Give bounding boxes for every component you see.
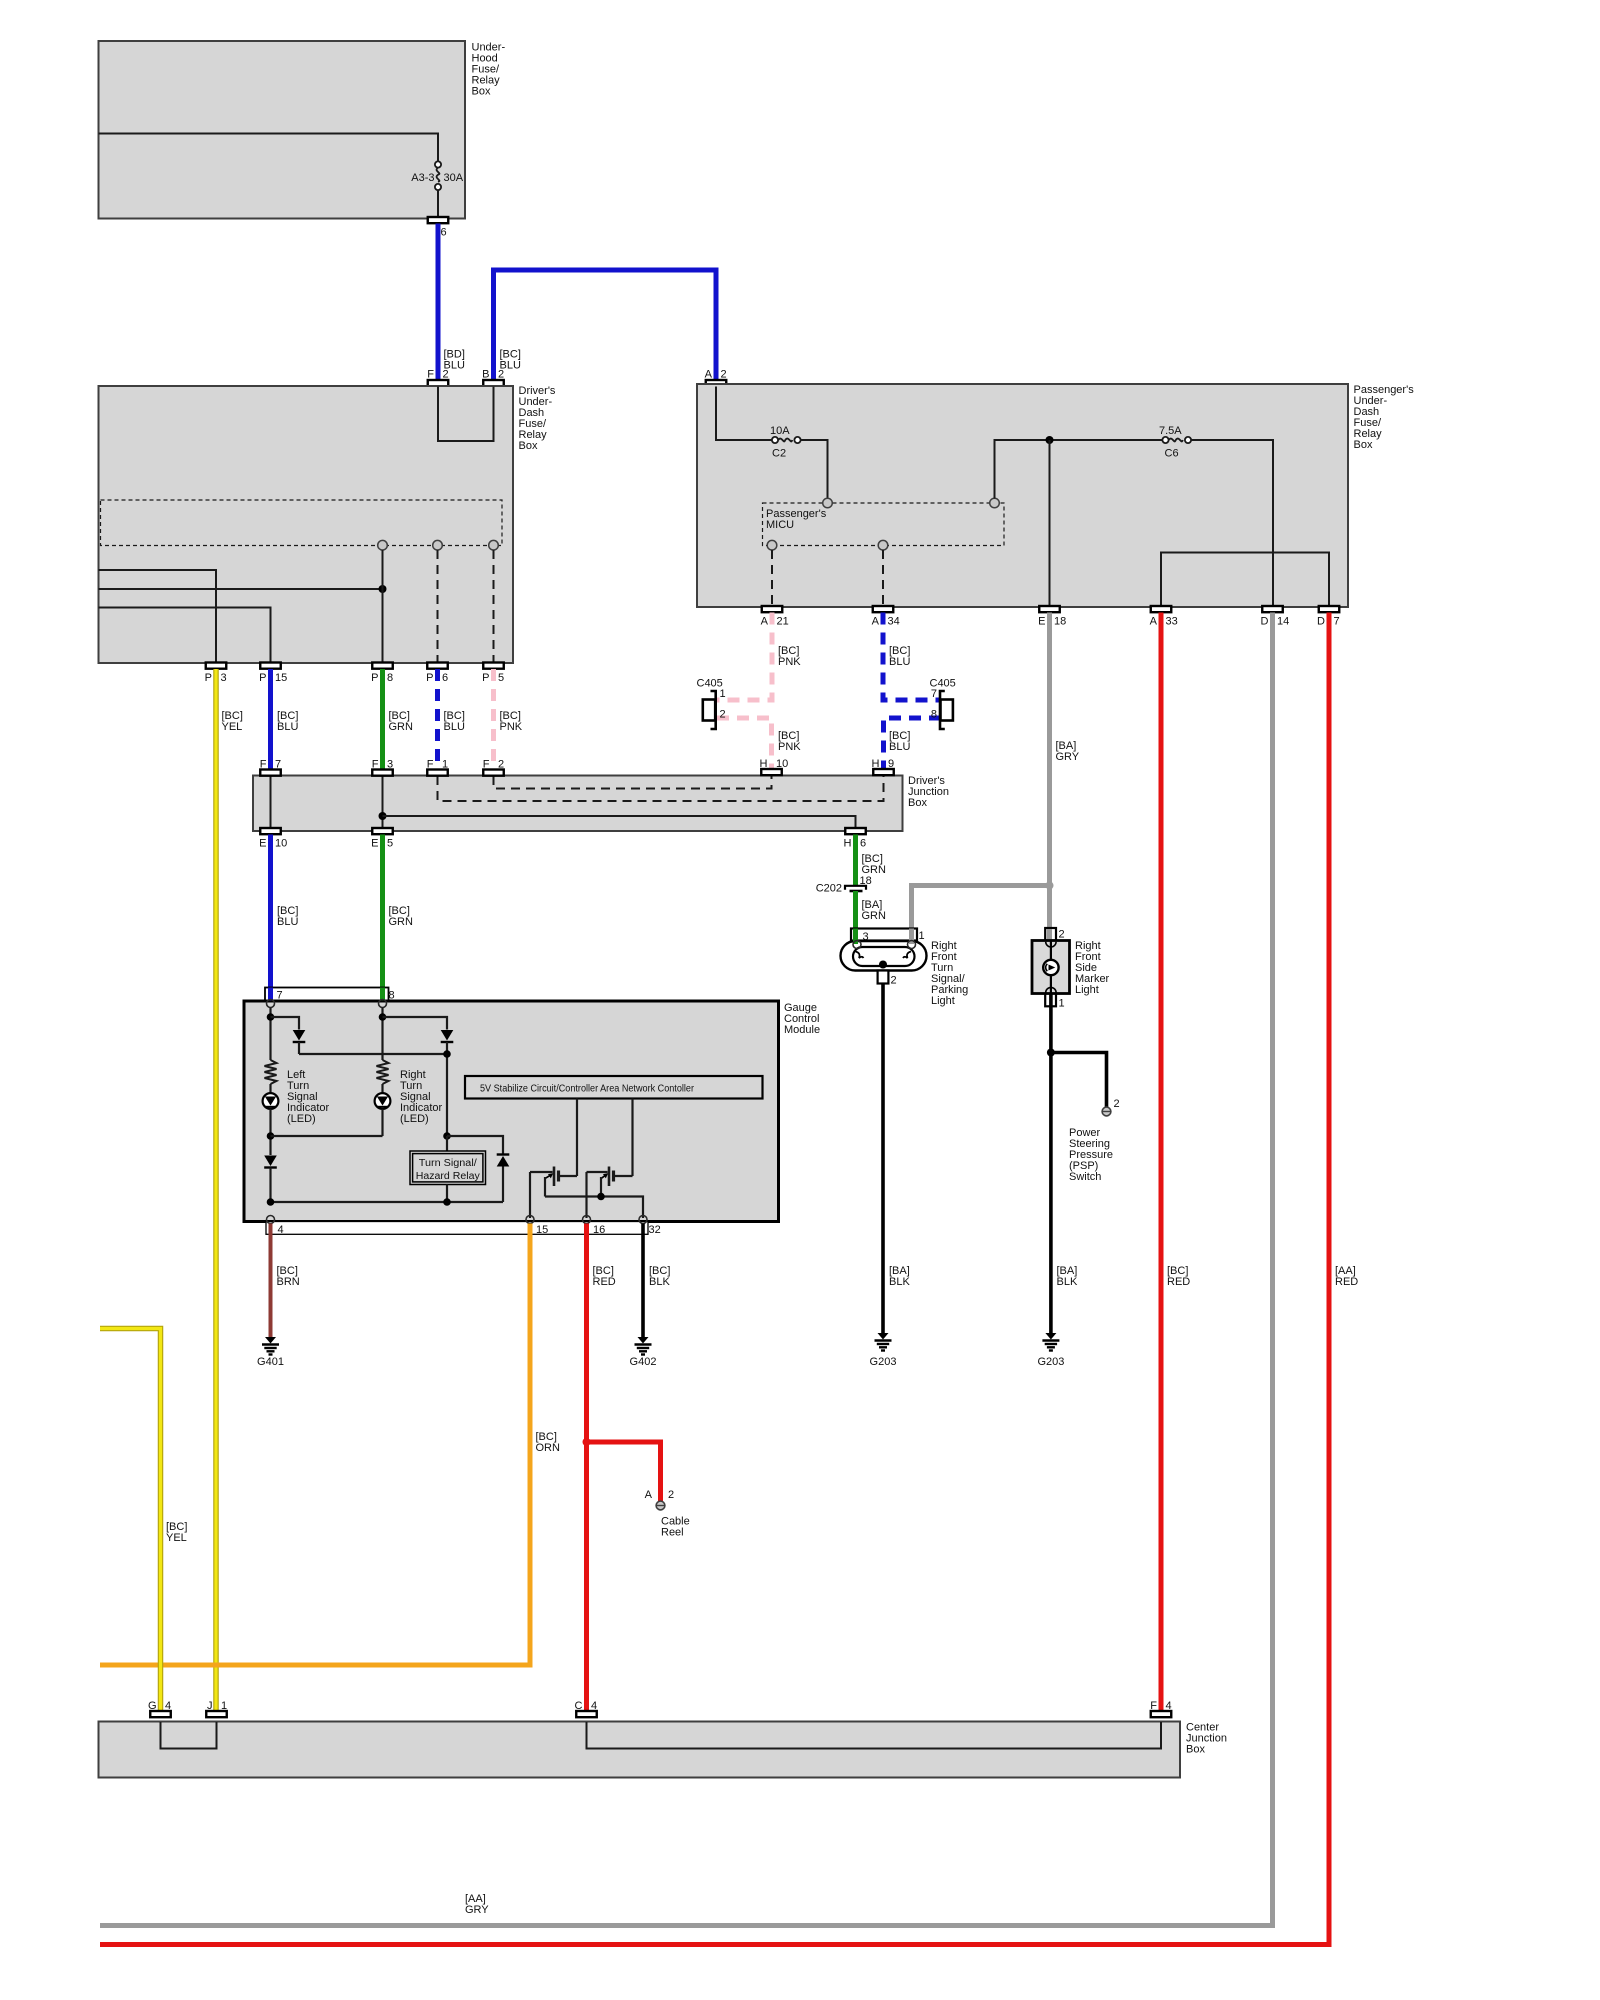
wire pin8 down: [381, 1008, 383, 1061]
svg-text:7.5A: 7.5A: [1159, 425, 1182, 437]
svg-text:(LED): (LED): [400, 1113, 429, 1125]
ground G203 left: [878, 1333, 889, 1340]
svg-text:GRY: GRY: [465, 1904, 489, 1916]
connector C405 left bracket: [711, 691, 716, 729]
module pin 16 circle: [583, 1216, 591, 1224]
wire LED left down: [269, 1109, 271, 1155]
driver micu terminal circle 2: [433, 540, 443, 550]
svg-text:E: E: [259, 838, 266, 850]
lamp filament left: [856, 952, 864, 959]
wire pin7 down: [269, 1008, 271, 1061]
junction dot bottom bus relay: [443, 1198, 451, 1206]
side marker inner wire: [1050, 941, 1052, 993]
connector C405 right body: [941, 700, 953, 721]
svg-text:F: F: [372, 759, 379, 771]
svg-text:9: 9: [888, 758, 894, 770]
svg-text:BLK: BLK: [1057, 1276, 1078, 1288]
connector E5: [372, 828, 393, 834]
dashed wire micu to P5: [493, 550, 495, 663]
svg-text:2: 2: [891, 975, 897, 987]
svg-text:4: 4: [591, 1700, 597, 1712]
wire to P15: [99, 608, 271, 663]
wire A33 to D7: [1161, 553, 1329, 607]
junction dot PSP branch: [1047, 1049, 1055, 1057]
fuse 7.5A C6: [1162, 437, 1168, 443]
svg-text:10: 10: [275, 838, 287, 850]
svg-text:Hazard Relay: Hazard Relay: [416, 1171, 480, 1182]
svg-text:F: F: [427, 759, 434, 771]
wire [BC] BLU P15 to F7: [268, 669, 273, 770]
svg-text:G: G: [148, 1700, 157, 1712]
transistor Q1 source lead: [544, 1177, 546, 1197]
svg-text:8: 8: [389, 990, 395, 1002]
svg-text:P: P: [259, 672, 266, 684]
svg-text:7: 7: [931, 688, 937, 700]
module pin 8 circle: [379, 1000, 387, 1008]
driver's junction box: [253, 776, 903, 832]
wire fuse to terminal 6: [437, 190, 439, 217]
connector A33: [1151, 606, 1172, 612]
center junction box: [99, 1722, 1181, 1778]
svg-text:15: 15: [275, 672, 287, 684]
wire [BC] GRN H6 to C202: [853, 835, 858, 886]
wire pin16 riser: [585, 1172, 587, 1218]
svg-text:Light: Light: [1075, 984, 1099, 996]
svg-text:H: H: [872, 758, 880, 770]
svg-text:F: F: [427, 369, 434, 381]
svg-text:7: 7: [277, 990, 283, 1002]
connector P3: [206, 663, 227, 669]
svg-text:8: 8: [387, 672, 393, 684]
wire cable reel branch: [587, 1442, 661, 1501]
wire [BC] GRN E5 to pin8: [380, 835, 385, 1001]
wire LED right down: [381, 1109, 383, 1136]
wire [BC] GRN P8 to F3: [380, 669, 385, 770]
wire [BC] BLU E10 to pin7: [268, 835, 273, 1001]
svg-text:34: 34: [888, 616, 900, 628]
cable reel terminal: [656, 1501, 665, 1510]
wire relay diode branch: [447, 1136, 503, 1155]
svg-text:GRN: GRN: [389, 916, 414, 928]
module pin 32 circle: [639, 1216, 647, 1224]
wire gray branch to lamp pin1: [912, 886, 1050, 942]
svg-text:J: J: [207, 1700, 213, 1712]
connector A2 passenger box: [706, 380, 727, 386]
connector E10: [260, 828, 281, 834]
svg-text:BLK: BLK: [889, 1276, 910, 1288]
diode D3: [264, 1156, 277, 1167]
wire diode2 down: [446, 1042, 448, 1136]
connector A21: [762, 606, 783, 612]
fuse A3-3 30A: [435, 161, 441, 167]
passenger's under-dash fuse/relay box: [697, 384, 1348, 607]
wire green through lamp strip: [853, 929, 858, 945]
svg-text:RED: RED: [1335, 1276, 1358, 1288]
junction dot gray wire: [1046, 882, 1054, 890]
wire relay top lead: [446, 1136, 448, 1151]
svg-text:Light: Light: [931, 995, 955, 1007]
svg-text:5: 5: [498, 672, 504, 684]
wire [BD] BLU terminal6 to F2: [436, 224, 441, 381]
connector H10: [761, 769, 782, 775]
gauge module connector strip bottom: [266, 1222, 648, 1235]
resistor left: [265, 1060, 277, 1084]
wire to PSP switch: [1051, 1053, 1107, 1108]
connector F4: [1151, 1711, 1172, 1717]
connector F1: [427, 770, 448, 776]
junction dot right top: [379, 1013, 387, 1021]
svg-text:Box: Box: [519, 440, 538, 452]
dashed wire [BC] PNK A21 to C405 pin1: [717, 613, 772, 701]
passenger MICU dashed outline: [763, 503, 1005, 546]
svg-text:BLU: BLU: [889, 741, 910, 753]
svg-text:BLU: BLU: [889, 656, 910, 668]
connector B2 driver box: [483, 380, 504, 386]
svg-text:4: 4: [1166, 1700, 1172, 1712]
svg-text:D: D: [1261, 616, 1269, 628]
svg-text:3: 3: [221, 672, 227, 684]
dashed wire micu to P6: [437, 550, 439, 663]
svg-text:2: 2: [498, 369, 504, 381]
svg-text:15: 15: [536, 1224, 548, 1236]
transistor Q2 source arrow: [602, 1175, 607, 1179]
svg-text:5: 5: [387, 838, 393, 850]
svg-text:7: 7: [275, 759, 281, 771]
transistor Q2 source lead: [600, 1177, 602, 1197]
wire gray through side marker pin2: [1047, 929, 1052, 940]
wire F3 to E5 inside junction box: [382, 776, 384, 828]
transistor Q2 drain lead: [614, 1175, 633, 1177]
connector F3: [372, 770, 393, 776]
svg-text:P: P: [426, 672, 433, 684]
lamp pin 1 circle: [908, 941, 916, 949]
svg-text:C202: C202: [816, 883, 842, 895]
micu terminal circle bottom-left: [767, 540, 777, 550]
svg-text:6: 6: [441, 227, 447, 239]
connector J1: [206, 1711, 227, 1717]
transistor Q1 gate bar: [553, 1167, 556, 1187]
svg-text:1: 1: [442, 759, 448, 771]
svg-text:C2: C2: [772, 448, 786, 460]
svg-text:2: 2: [668, 1489, 674, 1501]
svg-text:A: A: [705, 369, 713, 381]
svg-text:A: A: [1150, 616, 1158, 628]
wire [BC] RED A33 to F4: [1159, 613, 1164, 1712]
ground G203 right: [1045, 1333, 1056, 1340]
transistor Q1 gate lead: [530, 1171, 553, 1173]
svg-text:14: 14: [1277, 616, 1289, 628]
dashed wire micu to A34: [882, 550, 884, 606]
wire to P3: [99, 570, 217, 663]
svg-text:5V Stabilize Circuit/Controlle: 5V Stabilize Circuit/Controller Area Net…: [480, 1084, 695, 1095]
svg-text:G402: G402: [630, 1356, 657, 1368]
side marker pin 1 connector: [1045, 994, 1056, 1007]
connector P15: [260, 663, 281, 669]
svg-text:YEL: YEL: [166, 1532, 187, 1544]
wire to P8 horizontal: [99, 588, 383, 590]
ground G401: [265, 1337, 276, 1344]
svg-text:BLU: BLU: [277, 721, 298, 733]
wire A2 to fuse C2: [716, 387, 772, 441]
svg-text:P: P: [205, 672, 212, 684]
junction dot source bus: [597, 1193, 605, 1201]
svg-text:18: 18: [1054, 616, 1066, 628]
svg-text:Reel: Reel: [661, 1527, 684, 1539]
svg-text:P: P: [482, 672, 489, 684]
side marker bottom arc: [1046, 987, 1056, 992]
connector G4: [150, 1711, 171, 1717]
wire micu to fuse C6: [995, 440, 1163, 499]
svg-text:BLU: BLU: [277, 916, 298, 928]
fuse 10A C2: [772, 437, 778, 443]
crossbar wire: [299, 1053, 447, 1055]
micu terminal circle bottom-right: [878, 540, 888, 550]
svg-text:32: 32: [649, 1224, 661, 1236]
svg-text:30A: 30A: [444, 172, 464, 184]
svg-text:F: F: [1150, 1700, 1157, 1712]
connector A34: [873, 606, 894, 612]
transistor Q1 channel bar: [557, 1171, 560, 1182]
wire inside under-hood box: [99, 134, 439, 162]
junction dot left top: [267, 1013, 275, 1021]
connector H9: [873, 769, 894, 775]
svg-text:H: H: [760, 758, 768, 770]
svg-text:G401: G401: [257, 1356, 284, 1368]
junction dot cable reel branch: [583, 1438, 591, 1446]
wire F2 to B2 inside driver box: [438, 387, 494, 442]
connector F2 junction box: [483, 770, 504, 776]
svg-text:C: C: [575, 1700, 583, 1712]
junction dot bottom bus left: [267, 1198, 275, 1206]
svg-text:Box: Box: [472, 86, 491, 98]
lamp pin 3 circle: [853, 941, 861, 949]
svg-text:GRY: GRY: [1056, 751, 1080, 763]
svg-text:A: A: [761, 616, 769, 628]
svg-text:PNK: PNK: [778, 656, 801, 668]
svg-text:B: B: [482, 369, 489, 381]
gauge control module box: [244, 1001, 779, 1222]
svg-text:8: 8: [931, 709, 937, 721]
wire gray through lamp strip: [909, 929, 914, 945]
transistor Q2 gate lead: [587, 1171, 608, 1173]
resistor right: [377, 1060, 389, 1084]
wire micu circle to P8: [382, 550, 384, 663]
lamp bottom junction dot: [879, 961, 887, 969]
PSP switch terminal: [1102, 1107, 1111, 1116]
junction dot P8 wire: [379, 585, 387, 593]
gauge module connector strip top: [265, 988, 389, 1002]
svg-text:1: 1: [221, 1700, 227, 1712]
svg-text:A3-3: A3-3: [411, 172, 434, 184]
svg-text:P: P: [371, 672, 378, 684]
connector E18: [1039, 606, 1060, 612]
svg-text:2: 2: [721, 369, 727, 381]
connector D14: [1262, 606, 1283, 612]
wire [BC] YEL left to G4: [100, 1329, 161, 1712]
lamp pin 2 connector: [878, 971, 889, 984]
svg-text:Box: Box: [1186, 1744, 1205, 1756]
svg-text:BLK: BLK: [649, 1276, 670, 1288]
driver micu terminal circle 1: [378, 540, 388, 550]
svg-text:16: 16: [593, 1224, 605, 1236]
micu terminal circle top-left: [823, 498, 833, 508]
wire resistor to LED left: [269, 1084, 271, 1094]
wire [BC] ORN pin15 down-left: [100, 1224, 530, 1666]
side marker pin 2 connector: [1045, 928, 1056, 941]
svg-text:E: E: [1038, 616, 1045, 628]
wire black through side marker pin1: [1049, 995, 1053, 1007]
svg-text:MICU: MICU: [766, 519, 794, 531]
dashed wire F1 to H9: [438, 776, 884, 801]
svg-text:RED: RED: [1167, 1276, 1190, 1288]
svg-text:6: 6: [442, 672, 448, 684]
wire green through strip: [380, 988, 385, 1001]
svg-text:Switch: Switch: [1069, 1171, 1101, 1183]
transistor Q1 drain lead: [559, 1175, 578, 1177]
lamp filament right: [903, 952, 911, 959]
wire diode3 to bottom bus: [269, 1168, 271, 1203]
svg-text:4: 4: [165, 1700, 171, 1712]
wire diode4 down: [502, 1167, 504, 1203]
wire blue through strip: [268, 988, 273, 1001]
LED bus wire: [271, 1135, 383, 1137]
diode D4 flyback: [497, 1156, 510, 1167]
junction dot LED bus left: [267, 1132, 275, 1140]
bottom bus wire left: [271, 1201, 504, 1203]
svg-text:C6: C6: [1165, 448, 1179, 460]
wire [BC] BLK pin32 to G402: [641, 1224, 645, 1338]
svg-text:BLU: BLU: [444, 721, 465, 733]
connector C4: [576, 1711, 597, 1717]
wire diode1 to crossbar: [298, 1042, 300, 1054]
turn signal/hazard relay box: [410, 1151, 486, 1185]
svg-text:H: H: [844, 838, 852, 850]
connector P6: [427, 663, 448, 669]
svg-text:F: F: [483, 759, 490, 771]
svg-text:RED: RED: [593, 1276, 616, 1288]
ground G402: [638, 1337, 649, 1344]
wire junction to H6: [383, 816, 856, 828]
connector F2 driver box: [428, 380, 449, 386]
wire resistor to LED right: [381, 1084, 383, 1094]
svg-text:D: D: [1317, 616, 1325, 628]
connector H6: [845, 828, 866, 834]
svg-text:E: E: [371, 838, 378, 850]
module pin 7 circle: [267, 1000, 275, 1008]
under-hood fuse/relay box: [99, 41, 466, 219]
svg-text:BRN: BRN: [277, 1276, 300, 1288]
connector C202 bottom bar: [850, 890, 863, 893]
dashed wire [BC] BLU A34 to C405 pin7: [883, 613, 941, 701]
svg-text:33: 33: [1166, 616, 1178, 628]
svg-text:PNK: PNK: [778, 741, 801, 753]
wire [BC] RED pin16 to C4: [584, 1224, 589, 1712]
diode D2: [441, 1030, 454, 1041]
svg-text:2: 2: [720, 709, 726, 721]
driver MICU dashed outline: [101, 500, 503, 546]
svg-text:G203: G203: [870, 1356, 897, 1368]
svg-text:6: 6: [860, 838, 866, 850]
svg-text:F: F: [260, 759, 267, 771]
svg-text:2: 2: [498, 759, 504, 771]
left turn signal indicator LED: [263, 1093, 279, 1109]
module pin 4 circle: [267, 1216, 275, 1224]
wire branch to diode2: [383, 1017, 448, 1030]
svg-text:G203: G203: [1037, 1356, 1064, 1368]
wire fuse C6 to D14: [1191, 440, 1273, 606]
dashed wire [BC] PNK C405 pin2 to H10: [717, 718, 772, 769]
driver's under-dash fuse/relay box: [99, 386, 514, 663]
wire [BA] GRY E18 down: [1047, 613, 1052, 929]
svg-text:10: 10: [776, 758, 788, 770]
right turn signal indicator LED: [375, 1093, 391, 1109]
side marker top arc: [1046, 942, 1056, 947]
side marker bulb: [1043, 960, 1058, 975]
svg-text:Turn Signal/: Turn Signal/: [419, 1158, 477, 1169]
wire C4 to F4 inside center box: [587, 1722, 1162, 1749]
wire 5V box riser 2: [631, 1099, 633, 1177]
module pin 15 circle: [526, 1216, 534, 1224]
wire G4 to J1 inside center box: [161, 1722, 217, 1749]
connector terminal 6: [428, 217, 449, 223]
lamp inner bulb outline: [853, 947, 915, 966]
wire [AA] GRY D14 down-left: [100, 613, 1273, 1926]
right front turn signal/parking light connector strip: [851, 929, 917, 941]
connector P5: [483, 663, 504, 669]
dashed wire F2 to H10: [494, 776, 772, 789]
transistor Q2 channel bar: [612, 1171, 615, 1182]
svg-text:2: 2: [1114, 1098, 1120, 1110]
wire [BC] YEL P3 to J1: [213, 669, 219, 1711]
diode D1: [293, 1030, 306, 1041]
svg-text:GRN: GRN: [862, 910, 887, 922]
connector F7: [260, 770, 281, 776]
svg-text:Box: Box: [1354, 439, 1373, 451]
connector C202 top half: [845, 886, 866, 890]
dashed wire [BC] BLU C405 pin8 to H9: [884, 718, 942, 769]
source bus wire: [545, 1197, 643, 1219]
wire branch to diode1: [271, 1017, 300, 1030]
junction dot crossbar: [443, 1050, 451, 1058]
micu terminal circle top-right: [990, 498, 1000, 508]
svg-text:YEL: YEL: [222, 721, 243, 733]
right front turn signal/parking light body: [841, 941, 927, 971]
wire [BC] BLU B2 to A2: [494, 270, 717, 380]
transistor Q2 gate bar: [608, 1167, 611, 1187]
wire [BC] BRN pin4 to G401: [269, 1224, 273, 1338]
svg-text:10A: 10A: [770, 425, 790, 437]
svg-text:4: 4: [278, 1224, 284, 1236]
wire gray into side marker pin2: [1047, 925, 1052, 940]
svg-text:ORN: ORN: [536, 1442, 561, 1454]
junction dot F3-H6: [379, 812, 387, 820]
svg-text:21: 21: [777, 616, 789, 628]
dashed wire [BC] PNK P5 to F2: [491, 669, 496, 770]
wire [BA] BLK side marker to ground: [1049, 1006, 1053, 1333]
wire relay bottom lead: [446, 1185, 448, 1203]
transistor Q1 source arrow: [546, 1175, 552, 1179]
driver micu terminal circle 3: [489, 540, 499, 550]
svg-text:(LED): (LED): [287, 1113, 316, 1125]
wire [BA] BLK lamp to ground: [881, 984, 885, 1334]
svg-text:GRN: GRN: [389, 721, 414, 733]
dashed wire [BC] BLU P6 to F1: [435, 669, 440, 770]
wire junction to E18: [1049, 440, 1051, 606]
svg-text:2: 2: [443, 369, 449, 381]
connector P8: [372, 663, 393, 669]
connector C405 right bracket: [940, 691, 945, 729]
svg-text:A: A: [872, 616, 880, 628]
